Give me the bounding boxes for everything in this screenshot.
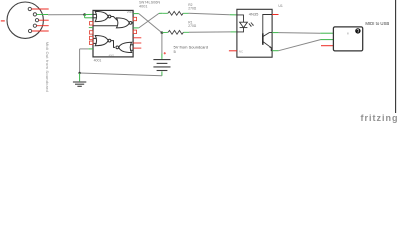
svg-text:NC: NC — [239, 50, 243, 54]
svg-text:4001: 4001 — [109, 54, 115, 58]
svg-text:5V from Soundcard: 5V from Soundcard — [174, 44, 208, 49]
svg-text:4001: 4001 — [139, 4, 147, 8]
svg-text:VDD: VDD — [127, 10, 133, 14]
svg-text:4N35: 4N35 — [249, 11, 259, 16]
svg-text:270Ω: 270Ω — [188, 7, 197, 11]
svg-text:4001: 4001 — [94, 58, 102, 62]
svg-text:Midi Out from Soundcard: Midi Out from Soundcard — [45, 42, 50, 92]
svg-text:fritzing: fritzing — [361, 113, 399, 123]
svg-text:270Ω: 270Ω — [188, 24, 197, 28]
svg-text:MIDI to USB: MIDI to USB — [365, 21, 389, 26]
svg-text:U1: U1 — [278, 4, 283, 8]
